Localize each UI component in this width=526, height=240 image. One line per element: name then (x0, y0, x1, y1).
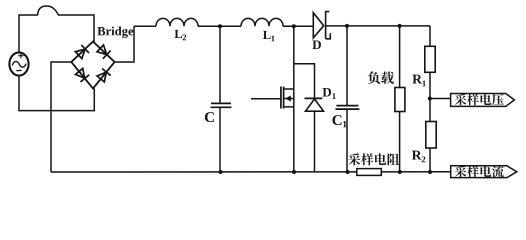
capacitor C1 (346, 26, 348, 105)
label R2 (412, 151, 425, 163)
resistor R2 (426, 122, 436, 149)
wire (198, 25, 241, 27)
transistor Q MOSFET (293, 26, 295, 89)
node junction dot (R2 bottom) (428, 170, 432, 174)
inductor L2 (156, 18, 198, 26)
sampling voltage tag (451, 94, 515, 107)
label Bridge (97, 27, 133, 39)
wire AC top to bridge top with bump (19, 6, 94, 53)
label caiyang dianzu (sampling resistor) (348, 153, 399, 165)
node junction dot (source/bottom rail) (292, 170, 296, 174)
sampling resistor box (357, 169, 382, 176)
node junction dot (divider) (428, 97, 432, 101)
resistor R1 (429, 26, 431, 46)
node junction dot (C1 top) (345, 24, 349, 28)
bridge diode bottom-left (75, 68, 89, 82)
bridge diode top-left (75, 45, 89, 59)
wire bridge left vertex to bottom rail (51, 62, 71, 172)
label D (312, 40, 321, 49)
capacitor C (219, 26, 221, 103)
label caiyang dianya (sampling voltage) (455, 94, 504, 106)
label fuzai (load) (368, 71, 394, 84)
label caiyang dianliu (sampling current) (455, 166, 504, 178)
load resistor box (399, 26, 401, 88)
label R1 (412, 75, 425, 87)
wire gate stub (251, 98, 281, 100)
sampling current tag (451, 166, 517, 178)
bridge diode bottom-right (96, 68, 110, 82)
wire to voltage tag (430, 98, 451, 100)
node junction dot (MOSFET drain) (292, 24, 296, 28)
label D1 (323, 88, 336, 99)
bridge rectifier diamond (71, 42, 114, 89)
label C (205, 112, 214, 122)
node junction dot (C bottom) (219, 170, 223, 174)
wire (429, 148, 431, 172)
diode D1 (294, 64, 315, 99)
wire (429, 72, 431, 121)
wire MOSFET source down (293, 107, 295, 172)
diode D (schottky) (313, 13, 323, 38)
node junction dot (C1 bottom) (346, 170, 350, 174)
node junction dot (C branch) (218, 24, 222, 28)
label L1 (263, 31, 275, 41)
bottom rail wire (51, 171, 451, 173)
node junction dot (load bottom) (398, 170, 402, 174)
bridge diode top-right (96, 44, 110, 58)
label C1 (333, 115, 347, 127)
AC source (9, 52, 28, 75)
wire (134, 25, 156, 27)
wire AC bottom to bridge bottom vertex (19, 76, 94, 111)
inductor L1 (241, 18, 283, 26)
wire (326, 25, 430, 27)
label L2 (175, 30, 187, 40)
wire bridge right vertex to top rail (115, 26, 134, 62)
wire (283, 25, 313, 27)
node junction dot (load top) (398, 24, 402, 28)
